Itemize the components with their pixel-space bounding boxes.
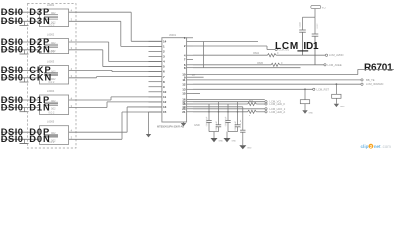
wire LCM_ID1 to terminal — [193, 45, 267, 47]
common-mode filter L6003 — [40, 66, 69, 84]
connector right pin 17 — [187, 101, 193, 103]
svg-text:DSI0: DSI0 — [1, 134, 24, 144]
svg-text:GND: GND — [247, 148, 252, 150]
svg-text:GND: GND — [194, 123, 200, 127]
wire DSI0 D1N into filter — [1, 107, 40, 109]
connector left pin 1 — [149, 45, 162, 47]
ground bar caps 3-4 — [228, 131, 238, 133]
svg-text:1uF: 1uF — [192, 75, 197, 77]
svg-text:11: 11 — [163, 95, 167, 99]
connector right pin 7 — [187, 59, 193, 61]
connector right pin 18 — [187, 103, 193, 105]
common-mode filter L6002 — [40, 39, 69, 54]
svg-text:LCM_RST: LCM_RST — [317, 87, 330, 91]
capacitor C6003 — [227, 104, 229, 120]
svg-text:C602 1uF: C602 1uF — [225, 116, 227, 126]
wire DSI0 CKP into filter — [1, 69, 40, 71]
common-mode filter L6001 — [40, 9, 69, 27]
wire DSI0 D2N into filter — [1, 49, 40, 51]
svg-text:21: 21 — [182, 110, 186, 114]
svg-text:13: 13 — [182, 87, 186, 91]
connector left pin 12 — [149, 101, 162, 103]
connector J6001 — [162, 38, 187, 122]
stub mark — [24, 21, 26, 25]
svg-text:C603 1uF: C603 1uF — [235, 121, 237, 131]
svg-text:LCM_AVEE: LCM_AVEE — [328, 63, 342, 67]
svg-text:0Ω2: 0Ω2 — [51, 100, 56, 103]
wire to R6701 exit — [193, 74, 358, 76]
wire DSI0 D3P into filter — [1, 11, 40, 13]
svg-text:L6005: L6005 — [47, 120, 55, 124]
wire DSI0 D2P into filter — [1, 41, 40, 43]
svg-text:0Ω2: 0Ω2 — [51, 12, 56, 15]
wire AVEE cont — [280, 64, 324, 66]
wire to connector — [69, 138, 122, 140]
svg-text:15: 15 — [163, 110, 167, 114]
wire to connector — [69, 77, 97, 79]
ground bar caps 1-2 — [209, 131, 219, 133]
resistor R6005 — [271, 63, 280, 66]
connector right pin 16 — [187, 99, 193, 101]
connector right pin 6 — [187, 64, 193, 66]
stub mark — [24, 139, 26, 143]
svg-text:0Ω2: 0Ω2 — [51, 42, 56, 45]
svg-text:R605: R605 — [257, 62, 263, 65]
net label VCI top — [311, 5, 321, 8]
connector right pin 2 — [187, 45, 193, 47]
svg-text:LCM: LCM — [275, 41, 299, 52]
wire DSI0 D1P into filter — [1, 99, 40, 101]
svg-text:D0N: D0N — [29, 134, 50, 144]
wire row 67.7 — [193, 67, 301, 69]
svg-text:C600 1uF: C600 1uF — [206, 116, 208, 126]
connector right pin 15 — [187, 93, 193, 95]
connector right pin 20 — [187, 108, 193, 110]
wire to connector — [69, 107, 107, 109]
svg-text:C608: C608 — [300, 21, 302, 27]
common-mode filter L6004 — [40, 95, 69, 115]
connector right pin 19 — [187, 106, 193, 108]
connector right pin 13 — [187, 88, 193, 90]
svg-text:LCM_LED_K: LCM_LED_K — [270, 102, 286, 106]
dashed boundary box — [27, 4, 76, 148]
connector right pin 21 — [187, 111, 193, 113]
svg-text:DSI0: DSI0 — [1, 102, 24, 112]
svg-text:LCM_BL: LCM_BL — [240, 119, 242, 128]
svg-text:BB_TE: BB_TE — [366, 78, 375, 82]
svg-text:D1N: D1N — [29, 102, 50, 112]
wire DSI0 CKN into filter — [1, 77, 40, 79]
resistor R6004 — [268, 54, 277, 57]
connector right pin 8 — [187, 67, 193, 69]
svg-text:GND: GND — [219, 141, 224, 143]
wire to connector — [69, 131, 128, 133]
ground at connector left — [148, 112, 150, 134]
wire AVEE — [193, 64, 271, 66]
svg-text:GND: GND — [232, 141, 237, 143]
wire from VCI label — [314, 9, 316, 18]
svg-text:L6004: L6004 — [47, 89, 55, 93]
svg-text:DSI0: DSI0 — [1, 16, 24, 26]
svg-text:GND: GND — [340, 106, 345, 108]
connector right pin 9 — [187, 76, 193, 78]
svg-text:0Ω2: 0Ω2 — [51, 132, 56, 135]
connector left pin 10 — [149, 91, 162, 93]
capacitor C6004 — [237, 102, 239, 125]
connector right pin 10 — [187, 74, 193, 76]
wire to connector — [69, 69, 112, 71]
capacitor C6008 — [302, 17, 304, 30]
svg-text:L6003: L6003 — [47, 60, 55, 64]
connector left pin 2 — [149, 50, 162, 52]
capacitor C6011 — [336, 83, 338, 85]
svg-text:LCM_ID/MAIN: LCM_ID/MAIN — [366, 82, 383, 86]
stub mark — [24, 108, 26, 112]
svg-text:10: 10 — [163, 90, 167, 94]
connector left pin 14 — [149, 40, 162, 42]
svg-text:13: 13 — [163, 105, 167, 109]
connector right pin 1 — [187, 37, 193, 39]
svg-text:VCI: VCI — [322, 8, 326, 10]
capacitor C6010 — [304, 89, 306, 99]
connector left pin 11 — [149, 96, 162, 98]
common-mode filter L6005 — [40, 126, 69, 145]
svg-text:MTB5045UPA-30KR-AB: MTB5045UPA-30KR-AB — [157, 126, 184, 129]
wire to connector — [69, 20, 121, 22]
connector left pin 6 — [149, 71, 162, 73]
svg-text:D2N: D2N — [29, 45, 50, 55]
svg-text:12: 12 — [182, 82, 186, 86]
vertical bus wire — [203, 42, 205, 68]
svg-text:R604: R604 — [253, 52, 259, 55]
wire AVDD cont — [276, 54, 325, 56]
connector left pin 7 — [149, 76, 162, 78]
wire AVDD — [193, 54, 268, 56]
svg-text:ID1: ID1 — [303, 41, 319, 52]
capacitor C6001 — [208, 104, 210, 120]
svg-text:DSI0: DSI0 — [1, 73, 24, 83]
svg-text:GND: GND — [309, 113, 314, 115]
wire LCM_ID1 segment — [187, 41, 258, 43]
connector left pin 9 — [149, 86, 162, 88]
stub mark bottom — [20, 143, 29, 145]
connector left pin 8 — [149, 81, 162, 83]
svg-text:J6001: J6001 — [169, 33, 177, 37]
connector left pin 4 — [149, 61, 162, 63]
svg-text:.com: .com — [381, 144, 391, 149]
svg-text:CKN: CKN — [29, 73, 52, 83]
svg-text:LCM_LED_A: LCM_LED_A — [270, 110, 286, 114]
svg-text:DSI0: DSI0 — [1, 45, 24, 55]
stub mark — [24, 50, 26, 54]
connector left pin 5 — [149, 66, 162, 68]
connector right pin 4 — [187, 54, 193, 56]
stub mark — [24, 78, 26, 82]
svg-text:R6701: R6701 — [364, 63, 393, 74]
wire DSI0 D0N into filter — [1, 138, 40, 140]
connector right pin 11 — [187, 79, 193, 81]
svg-text:net: net — [374, 144, 381, 149]
capacitor C6002 — [218, 102, 220, 125]
capacitor C6009 — [314, 17, 316, 34]
ground at connector bottom right — [183, 122, 185, 123]
wire to connector — [69, 11, 132, 13]
wire to connector — [69, 49, 103, 51]
svg-text:0Ω2: 0Ω2 — [51, 108, 56, 111]
connector left pin 3 — [149, 55, 162, 57]
svg-text:D3N: D3N — [29, 16, 50, 26]
wire to connector — [69, 41, 109, 43]
svg-text:LCM_AVDD: LCM_AVDD — [329, 53, 343, 57]
connector right pin 12 — [187, 83, 193, 85]
capacitor C6005 vertical label — [242, 107, 244, 130]
wire DSI0 D0P into filter — [1, 131, 40, 133]
svg-text:C609: C609 — [317, 23, 319, 29]
svg-text:14: 14 — [163, 39, 167, 43]
svg-text:clip: clip — [361, 144, 369, 149]
wire to connector — [69, 99, 111, 101]
svg-text:15: 15 — [182, 92, 186, 96]
connector left pin 15 — [149, 111, 162, 113]
svg-text:C601 1uF: C601 1uF — [216, 121, 218, 131]
connector left pin 13 — [149, 106, 162, 108]
svg-text:12: 12 — [163, 100, 167, 104]
wire DSI0 D3N into filter — [1, 20, 40, 22]
